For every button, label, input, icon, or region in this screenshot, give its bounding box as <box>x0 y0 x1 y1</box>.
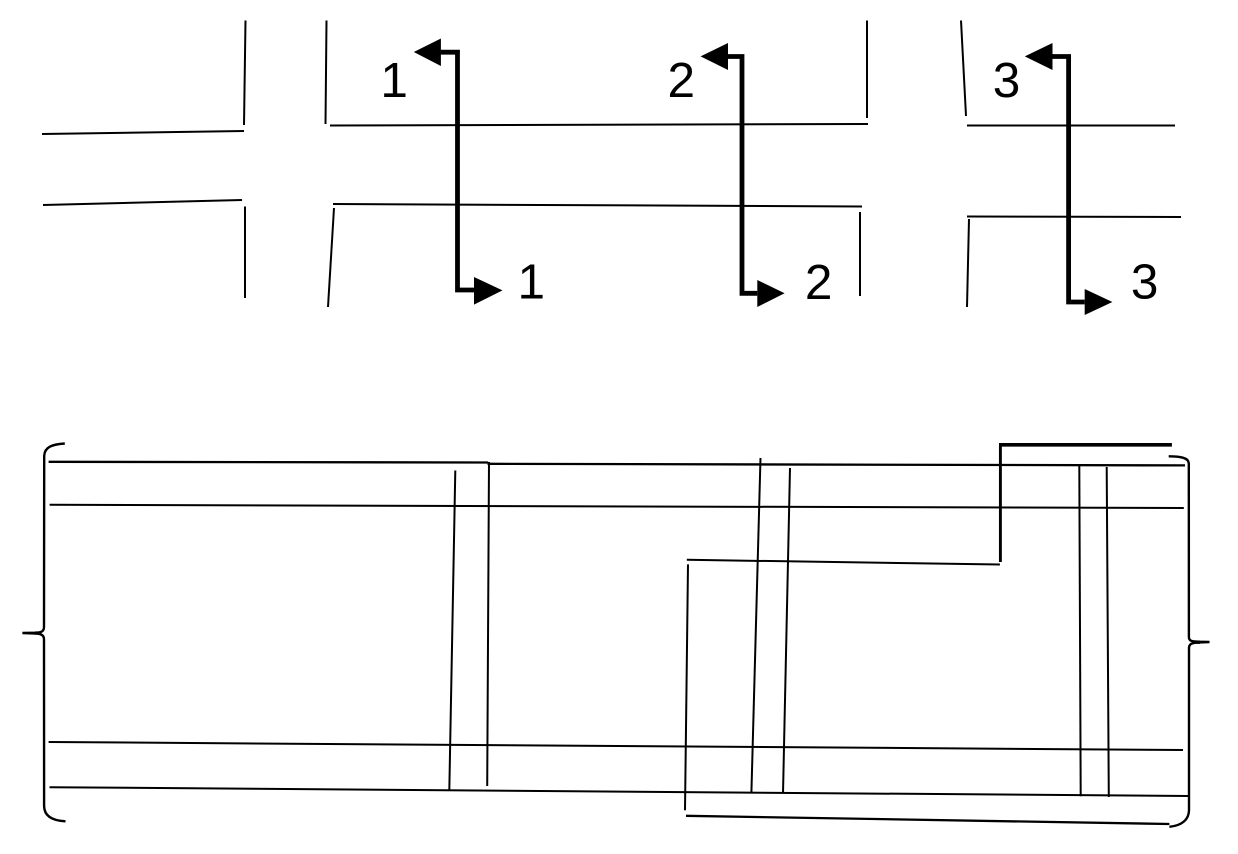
section 1 bottom arrowhead <box>474 277 503 305</box>
road B left edge upper <box>866 21 868 119</box>
section line 1 <box>441 52 474 290</box>
road B left edge lower <box>859 212 861 296</box>
pier 1 right line <box>487 462 489 786</box>
pier 3 right line <box>1107 467 1109 797</box>
svg-text:3: 3 <box>993 53 1021 108</box>
section 2 bottom arrowhead <box>757 280 784 307</box>
main road top edge left segment <box>42 131 244 134</box>
road A right edge upper <box>326 21 327 125</box>
overlay thick vertical <box>999 447 1002 563</box>
road B right edge upper <box>961 21 966 117</box>
section 3 top arrowhead <box>1025 43 1053 70</box>
road A right edge lower <box>328 208 334 307</box>
main road bottom edge left segment <box>43 200 242 205</box>
section line 3 <box>1053 57 1085 303</box>
road A left edge upper <box>244 21 246 126</box>
pier 1 left line <box>449 471 455 792</box>
deck third line <box>49 742 1183 750</box>
main road bottom edge middle segment <box>333 204 862 207</box>
svg-text:1: 1 <box>518 255 546 310</box>
svg-text:3: 3 <box>1131 254 1159 309</box>
section 3 bottom arrowhead <box>1085 289 1113 315</box>
road B right edge lower <box>967 219 969 307</box>
left brace <box>22 444 65 822</box>
left brace cusp knot <box>35 631 42 634</box>
deck bottom line <box>50 787 1189 796</box>
overlay thick top bar <box>999 443 1172 447</box>
svg-text:1: 1 <box>380 53 408 108</box>
right brace cusp knot <box>1193 640 1200 644</box>
overlay left vertical <box>685 564 688 810</box>
main road top edge middle segment <box>330 124 868 126</box>
overlay bottom line <box>686 816 1169 824</box>
pier 2 right line <box>783 468 790 794</box>
section line 2 <box>728 57 757 294</box>
svg-text:2: 2 <box>805 255 833 310</box>
deck top line left part <box>49 461 489 464</box>
right brace <box>1169 456 1210 827</box>
deck top line right part <box>488 464 1186 466</box>
section 1 top arrowhead <box>414 39 441 67</box>
main road bottom edge right segment <box>967 216 1181 219</box>
road A left edge lower <box>244 207 246 299</box>
svg-text:2: 2 <box>668 53 696 108</box>
pier 2 left line <box>751 458 760 793</box>
pier 3 left line <box>1079 466 1080 796</box>
section 2 top arrowhead <box>701 43 728 70</box>
deck second line <box>50 505 1184 508</box>
overlay step line <box>687 560 1000 565</box>
main road top edge right segment <box>967 125 1175 127</box>
